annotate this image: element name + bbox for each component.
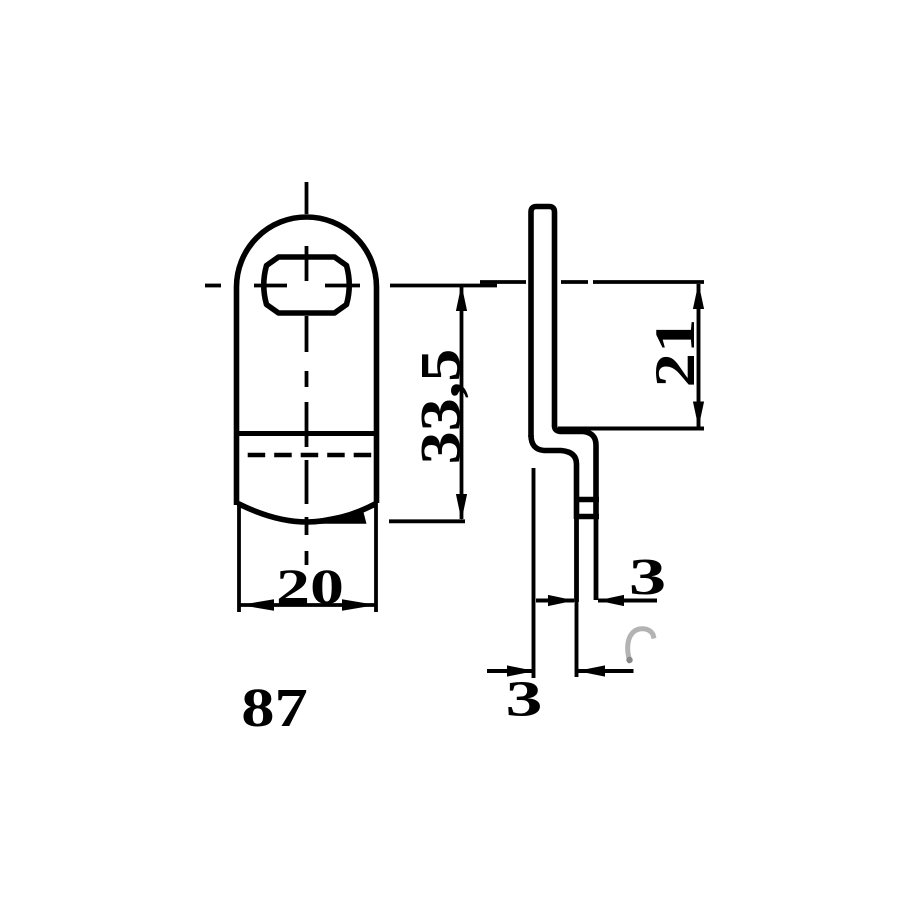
- svg-text:3: 3: [629, 548, 666, 605]
- svg-text:3: 3: [506, 670, 543, 727]
- svg-text:87: 87: [241, 677, 308, 739]
- svg-text:21: 21: [642, 319, 706, 388]
- svg-text:20: 20: [276, 559, 344, 614]
- svg-text:33,5: 33,5: [409, 349, 472, 465]
